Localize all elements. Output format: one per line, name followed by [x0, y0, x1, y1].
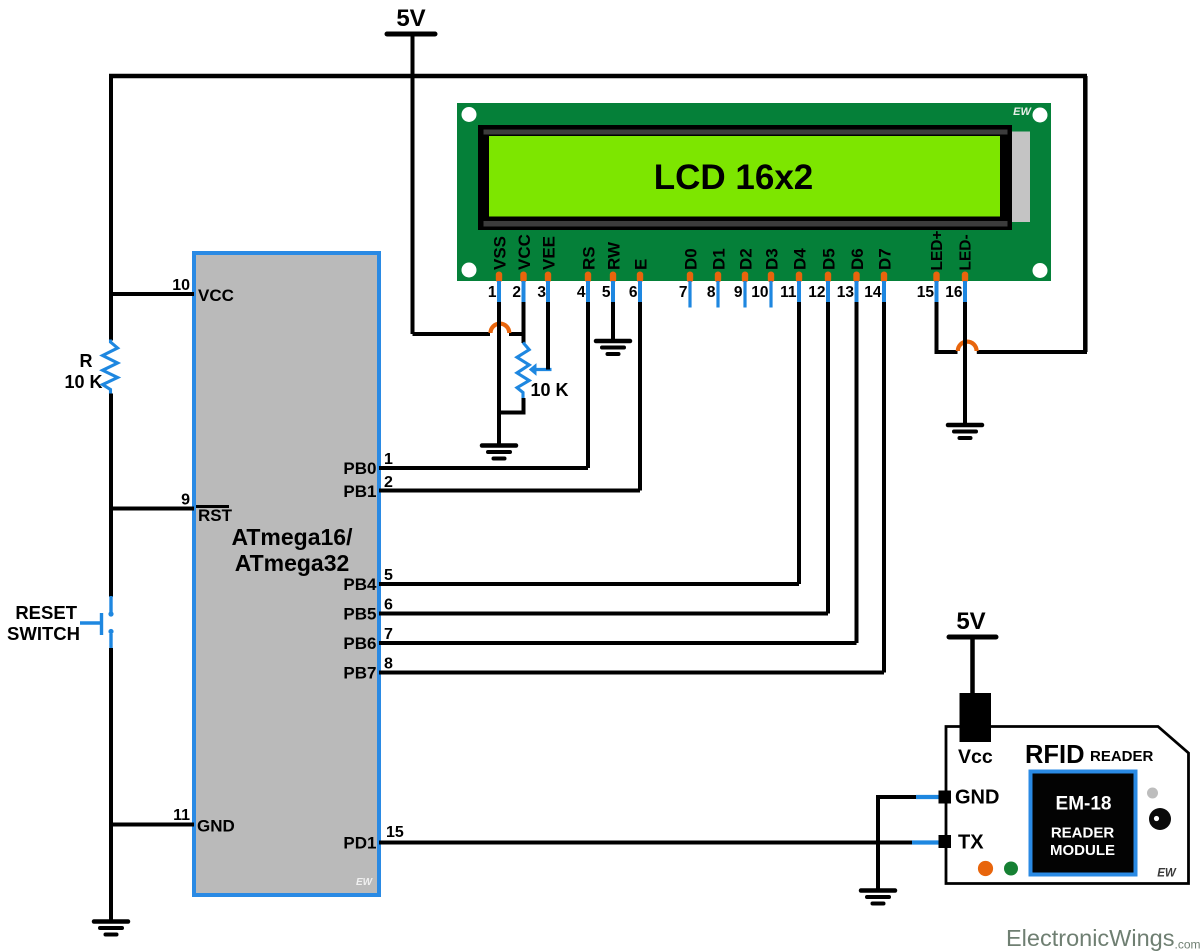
svg-text:R: R: [80, 351, 93, 371]
wire: 5V to RFID Vcc header: [970, 637, 975, 695]
wire: left rail between resistor and switch: [109, 394, 113, 598]
LCD pin name labels (rotated): [491, 230, 975, 270]
svg-text:D0: D0: [682, 248, 701, 270]
svg-text:2: 2: [512, 284, 521, 301]
wire: RST pin9 from left rail to U1: [111, 507, 194, 511]
RFID green LED: [1004, 862, 1018, 876]
wire: PB5 to D5 net: [379, 612, 828, 616]
svg-text:ATmega16/: ATmega16/: [231, 524, 353, 550]
svg-text:RFID: RFID: [1025, 741, 1085, 769]
wire: D6 (pin13) down to PB6 net: [855, 302, 859, 643]
svg-text:5V: 5V: [956, 608, 985, 635]
wire: PB0 to RS net: [379, 466, 588, 470]
svg-text:D6: D6: [848, 248, 867, 270]
EM-18 reader chip (black box, blue border): [1031, 772, 1136, 875]
wire: D5 (pin12) down to PB5 net: [826, 302, 830, 614]
wire stub: TX (blue): [912, 840, 939, 844]
power symbol 5V (top): [387, 5, 435, 34]
RFID small gray LED: [1147, 788, 1158, 799]
pushbutton SW1 reset switch: [80, 596, 114, 649]
LCD mounting hole bottom-left: [462, 263, 477, 278]
svg-text:16: 16: [945, 284, 963, 301]
ground: VSS: [482, 446, 516, 459]
LCD screen: [489, 136, 1000, 217]
wire stub: GND (blue): [916, 795, 939, 799]
svg-text:READER: READER: [1051, 825, 1115, 842]
svg-text:E: E: [632, 259, 651, 270]
RFID GND pin (black square): [939, 791, 952, 804]
LCD unconnected pin stubs D0-D3 (blue): [690, 281, 771, 308]
svg-text:3: 3: [537, 284, 546, 301]
svg-text:TX: TX: [958, 832, 984, 854]
svg-text:ATmega32: ATmega32: [235, 550, 350, 576]
svg-text:SWITCH: SWITCH: [7, 623, 80, 644]
svg-text:D4: D4: [791, 248, 810, 270]
svg-text:PB0: PB0: [343, 459, 376, 478]
ground: RFID: [861, 891, 895, 904]
ground: RW: [596, 341, 630, 354]
LCD metal tab right of bezel: [1011, 132, 1030, 223]
wire: left rail top segment (top rail to resistor R): [109, 76, 113, 341]
svg-text:9: 9: [181, 492, 190, 509]
svg-text:GND: GND: [955, 787, 999, 809]
svg-text:5: 5: [602, 284, 611, 301]
svg-text:MODULE: MODULE: [1050, 842, 1115, 859]
wire: VCC horizontal right of hop to pot top: [509, 332, 524, 336]
svg-text:7: 7: [384, 626, 393, 643]
svg-text:5: 5: [384, 567, 393, 584]
ground: LED-: [948, 425, 982, 438]
svg-text:8: 8: [707, 284, 716, 301]
svg-text:11: 11: [173, 807, 190, 824]
svg-text:2: 2: [384, 474, 393, 491]
wire: PB7 to D7 net: [379, 671, 884, 675]
RFID TX pin (black square): [939, 835, 952, 848]
svg-text:LED-: LED-: [958, 234, 975, 270]
wire: VCC pin10 from left rail to U1: [111, 292, 194, 296]
svg-text:5V: 5V: [396, 5, 425, 32]
svg-text:9: 9: [734, 284, 743, 301]
svg-text:10: 10: [172, 277, 190, 294]
RFID Vcc pin header (black block): [960, 693, 992, 742]
svg-text:PB1: PB1: [343, 482, 376, 501]
microcontroller U1 ATmega16/ATmega32 body: [194, 253, 379, 895]
LCD mounting hole bottom-right: [1033, 263, 1048, 278]
wire: left rail below switch to bottom ground: [109, 648, 113, 920]
svg-text:15: 15: [386, 824, 404, 841]
svg-text:10 K: 10 K: [531, 380, 569, 400]
svg-text:EW: EW: [1157, 868, 1177, 880]
svg-text:RW: RW: [605, 241, 624, 270]
svg-text:LCD 16x2: LCD 16x2: [654, 158, 814, 197]
svg-text:1: 1: [488, 284, 497, 301]
svg-text:D1: D1: [710, 248, 729, 270]
potentiometer RV1 bottom stub: [500, 398, 524, 413]
resistor R1 zigzag (blue): [103, 340, 118, 395]
svg-text:VCC: VCC: [198, 286, 234, 305]
LCD mounting hole top-left: [462, 107, 477, 122]
svg-text:15: 15: [917, 284, 935, 301]
svg-text:11: 11: [780, 284, 797, 301]
wire: PB6 to D6 net: [379, 641, 857, 645]
svg-text:PD1: PD1: [343, 834, 376, 853]
svg-text:RS: RS: [580, 246, 599, 270]
svg-text:Vcc: Vcc: [958, 746, 993, 768]
wire: E (pin6) down to PB1 net: [638, 302, 642, 491]
RFID buzzer (black circle with white dot): [1149, 808, 1171, 830]
RFID module M1 body outline: [946, 727, 1189, 884]
svg-text:D5: D5: [820, 248, 839, 270]
svg-text:10: 10: [751, 284, 768, 301]
svg-text:RESET: RESET: [15, 602, 77, 623]
wire: RS (pin4) down to PB0 net: [586, 302, 590, 468]
svg-text:4: 4: [577, 284, 586, 301]
wire: PB4 to D4 net: [379, 582, 799, 586]
wire: VEE (pin3) down to wiper: [546, 302, 550, 370]
LCD mounting hole top-right: [1033, 108, 1048, 123]
power symbol 5V (RFID): [949, 608, 996, 695]
hop: LED+ wire over LED- wire (orange arc): [958, 342, 977, 351]
svg-text:1: 1: [384, 451, 393, 468]
svg-text:PB5: PB5: [343, 605, 376, 624]
svg-text:14: 14: [864, 284, 882, 301]
svg-text:8: 8: [384, 656, 393, 673]
svg-text:RST: RST: [198, 506, 233, 525]
wire: right rail vertical (LED+ to top rail): [1083, 76, 1088, 352]
RFID orange LED: [978, 861, 993, 876]
svg-text:PB6: PB6: [343, 634, 376, 653]
LCD pin numbers 1-16: [488, 284, 963, 301]
svg-text:EM-18: EM-18: [1056, 794, 1112, 815]
svg-text:13: 13: [837, 284, 855, 301]
svg-text:ElectronicWings.com: ElectronicWings.com: [1006, 925, 1200, 952]
wire: top 5V rail horizontal: [109, 74, 1087, 79]
potentiometer RV1 10K: top stub: [522, 334, 526, 343]
potentiometer wiper arrow (blue): [535, 368, 552, 371]
wire: PB1 to E net: [379, 489, 640, 493]
svg-text:PB7: PB7: [343, 664, 376, 683]
svg-text:EW: EW: [1013, 106, 1032, 118]
svg-text:READER: READER: [1090, 748, 1154, 765]
U1 title: [231, 524, 353, 576]
svg-text:10 K: 10 K: [64, 372, 102, 392]
svg-text:D3: D3: [763, 248, 782, 270]
svg-text:7: 7: [679, 284, 688, 301]
wire: PD1 to RFID TX: [379, 841, 914, 845]
LCD module U2: PCB board: [457, 103, 1051, 281]
wire: 5V drop to LCD VCC rail: [413, 34, 491, 334]
wire: LED+ (pin15) down and right to right rail: [937, 302, 1088, 352]
svg-text:GND: GND: [197, 817, 235, 836]
hop: VCC wire over VSS wire (orange arc): [491, 324, 510, 333]
svg-text:LED+: LED+: [929, 230, 946, 270]
svg-text:VSS: VSS: [491, 236, 510, 270]
LCD bezel: [478, 125, 1012, 230]
svg-text:VCC: VCC: [515, 234, 534, 270]
wire: VCC (pin2) down to 5V rail wire: [522, 302, 526, 342]
label: RESET SWITCH: [7, 602, 80, 644]
wire: RW (pin5) down to ground: [611, 302, 615, 340]
svg-text:VEE: VEE: [540, 236, 559, 270]
LCD pin lead stubs (blue): [499, 281, 965, 304]
wire: LED- (pin16) down to ground: [963, 302, 967, 424]
wire: RFID GND to ground symbol: [878, 797, 916, 889]
svg-text:6: 6: [384, 597, 393, 614]
svg-text:D7: D7: [876, 248, 895, 270]
svg-text:PB4: PB4: [343, 575, 377, 594]
svg-text:D2: D2: [737, 248, 756, 270]
svg-text:12: 12: [808, 284, 825, 301]
potentiometer RV1 zigzag body: [517, 343, 529, 399]
LCD pin pads (orange): [496, 272, 968, 283]
wire: D4 (pin11) down to PB4 net: [797, 302, 801, 584]
svg-text:6: 6: [629, 284, 638, 301]
wire: VSS (pin1) down to ground: [497, 302, 501, 444]
ground: bottom left: [94, 922, 128, 935]
svg-text:EW: EW: [356, 877, 374, 888]
wire: GND pin11 from left rail to U1: [111, 823, 194, 827]
wire: D7 (pin14) down to PB7 net: [882, 302, 886, 673]
